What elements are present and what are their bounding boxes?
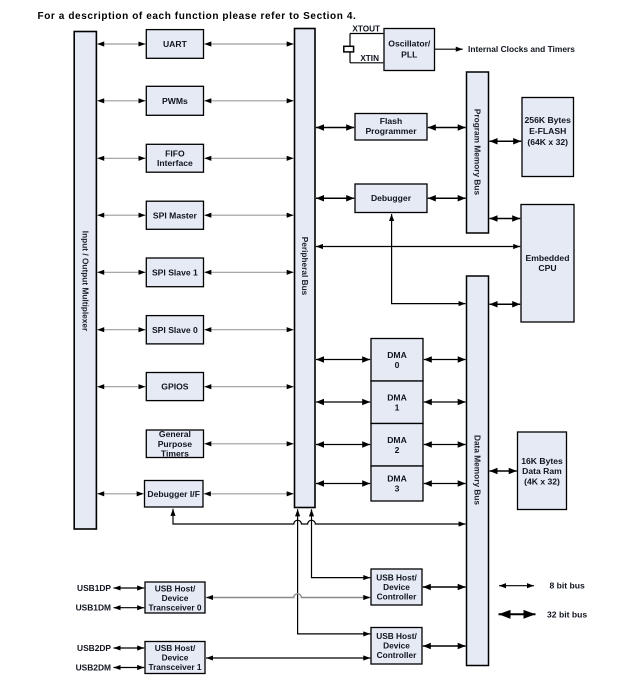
svg-text:Transceiver 1: Transceiver 1 <box>148 662 201 672</box>
svg-text:Transceiver 0: Transceiver 0 <box>148 602 201 612</box>
svg-text:Programmer: Programmer <box>365 126 417 136</box>
wire SPI Master-PeripheralBus <box>204 214 293 216</box>
wire DMA3-DataMemoryBus <box>424 483 466 485</box>
svg-text:Embedded: Embedded <box>526 253 570 263</box>
wire oscillator output <box>435 48 463 50</box>
SPI Master block <box>146 201 203 229</box>
svg-text:32 bit bus: 32 bit bus <box>547 609 587 619</box>
wire GPIOS-PeripheralBus <box>204 386 293 388</box>
wire USB1DP <box>114 587 145 589</box>
svg-text:USB1DP: USB1DP <box>77 583 111 593</box>
Input/Output Multiplexer block <box>74 32 96 530</box>
DMA 0 block <box>371 339 423 382</box>
svg-text:PLL: PLL <box>401 50 417 60</box>
wire FlashProgrammer-ProgramMemoryBus <box>428 127 466 129</box>
wire PeripheralBus-DMA0 <box>316 359 370 361</box>
svg-text:Program Memory Bus: Program Memory Bus <box>473 109 483 196</box>
svg-text:SPI Master: SPI Master <box>153 210 198 220</box>
wire USB1DM <box>114 607 145 609</box>
svg-text:1: 1 <box>395 402 400 412</box>
USB Host/Device Transceiver 1 block <box>145 642 205 674</box>
svg-text:Peripheral Bus: Peripheral Bus <box>300 237 310 296</box>
svg-text:Oscillator/: Oscillator/ <box>388 39 431 49</box>
svg-text:CPU: CPU <box>538 263 556 273</box>
wire IOMux-PWMs <box>97 100 145 102</box>
svg-text:DMA: DMA <box>387 392 407 402</box>
wire PeripheralBus-CPU <box>316 246 520 248</box>
FIFO Interface block <box>146 144 203 172</box>
UART block <box>146 30 203 59</box>
wire SPI Slave 0-PeripheralBus <box>204 329 293 331</box>
DMA 2 block <box>371 424 423 467</box>
wire XTIN <box>350 62 383 64</box>
USB Host/Device Controller 1 block <box>371 628 422 665</box>
svg-text:For a description of each func: For a description of each function pleas… <box>38 11 357 22</box>
wire UART-PeripheralBus <box>204 43 293 45</box>
svg-text:Debugger I/F: Debugger I/F <box>147 489 200 499</box>
wire XTOUT <box>350 33 383 35</box>
wire IOMux-SPI Master <box>97 214 145 216</box>
wire DMA1-DataMemoryBus <box>424 401 466 403</box>
wire PWMs-PeripheralBus <box>204 100 293 102</box>
legend 8 bit bus arrow <box>499 585 534 587</box>
svg-text:Data Memory Bus: Data Memory Bus <box>473 435 483 505</box>
Program Memory Bus block <box>467 72 489 233</box>
wire DMA0-DataMemoryBus <box>424 359 466 361</box>
USB Host/Device Controller 0 block <box>371 569 422 605</box>
svg-text:DMA: DMA <box>387 435 407 445</box>
wire PeripheralBus-Debugger <box>316 197 354 199</box>
DMA 1 block <box>371 381 423 424</box>
svg-text:Purpose: Purpose <box>158 439 193 449</box>
svg-text:Internal Clocks and Timers: Internal Clocks and Timers <box>468 44 575 54</box>
wire FIFO Interface-PeripheralBus <box>204 157 293 159</box>
USB Host/Device Transceiver 0 block <box>145 582 205 613</box>
256K Bytes E-FLASH block <box>522 98 574 177</box>
wire DebuggerIF-PeripheralBus <box>204 493 294 495</box>
SPI Slave 0 block <box>146 316 203 344</box>
DMA 3 block <box>371 466 423 501</box>
wire IOMux-SPI Slave 1 <box>97 271 145 273</box>
svg-text:Interface: Interface <box>157 158 193 168</box>
wire GeneralPurposeTimers-PeripheralBus <box>204 443 293 445</box>
svg-text:Device: Device <box>383 582 410 592</box>
wire IOMux-SPI Slave 0 <box>97 329 145 331</box>
svg-text:(64K x 32): (64K x 32) <box>527 137 568 147</box>
wire SPI Slave 1-PeripheralBus <box>204 271 293 273</box>
Flash Programmer block <box>355 114 427 141</box>
wire DMA2-DataMemoryBus <box>424 444 466 446</box>
svg-text:(4K x 32): (4K x 32) <box>524 476 560 486</box>
wire ProgramMemoryBus-EFLASH <box>490 140 522 142</box>
wire Debugger-ProgramMemoryBus <box>428 197 466 199</box>
svg-text:Timers: Timers <box>161 448 189 458</box>
svg-text:USB Host/: USB Host/ <box>376 572 417 582</box>
svg-text:PWMs: PWMs <box>162 96 188 106</box>
svg-text:DMA: DMA <box>387 350 407 360</box>
svg-text:0: 0 <box>395 360 400 370</box>
Debugger I/F block <box>145 481 204 508</box>
svg-text:2: 2 <box>395 445 400 455</box>
Debugger block <box>355 184 427 213</box>
svg-text:Data Ram: Data Ram <box>522 466 562 476</box>
wire DebuggerIF-DataMemoryBus <box>173 509 466 524</box>
legend 32 bit bus arrow <box>499 613 536 615</box>
wire PeripheralBus-DMA1 <box>316 401 370 403</box>
wire ProgramMemoryBus-CPU <box>490 218 521 220</box>
svg-text:Device: Device <box>162 593 189 603</box>
wire PeripheralBus-FlashProgrammer <box>316 127 354 129</box>
General Purpose Timers block <box>146 430 203 458</box>
wire Debugger-DataMemoryBus <box>392 214 466 304</box>
svg-text:XTIN: XTIN <box>360 54 379 63</box>
GPIOS block <box>146 373 203 401</box>
svg-text:UART: UART <box>163 39 188 49</box>
SPI Slave 1 block <box>146 258 203 287</box>
wire USB2DP <box>114 647 145 649</box>
svg-text:USB Host/: USB Host/ <box>155 583 196 593</box>
wire IOMux-UART <box>97 43 145 45</box>
wire IOMux-GPIOS <box>97 386 145 388</box>
crystal Y1 <box>344 46 354 52</box>
svg-text:XTOUT: XTOUT <box>352 25 380 34</box>
svg-text:USB2DP: USB2DP <box>77 643 111 653</box>
Oscillator/PLL block <box>384 29 435 71</box>
svg-text:Device: Device <box>162 653 189 663</box>
svg-text:E-FLASH: E-FLASH <box>529 126 566 136</box>
svg-text:16K Bytes: 16K Bytes <box>521 456 563 466</box>
wire DataMemoryBus-DataRam <box>490 470 517 472</box>
svg-text:Flash: Flash <box>380 116 402 126</box>
wire PeripheralBus-DMA3 <box>316 483 370 485</box>
svg-text:DMA: DMA <box>387 474 407 484</box>
svg-text:8 bit bus: 8 bit bus <box>550 581 586 591</box>
16K Bytes Data Ram block <box>518 432 567 510</box>
svg-text:SPI Slave 0: SPI Slave 0 <box>152 325 198 335</box>
Embedded CPU block <box>521 205 574 323</box>
svg-text:USB2DM: USB2DM <box>76 663 111 673</box>
wire PeripheralBus-USBController1 <box>298 509 371 634</box>
wire crystal vertical <box>349 34 351 63</box>
svg-text:SPI Slave 1: SPI Slave 1 <box>152 267 198 277</box>
svg-text:GPIOS: GPIOS <box>161 382 188 392</box>
wire USBController1-DataMemoryBus <box>423 645 466 647</box>
wire DataMemoryBus-CPU <box>490 303 521 305</box>
svg-text:Debugger: Debugger <box>371 193 412 203</box>
wire Transceiver1-USBController1 <box>206 657 370 659</box>
wire USB2DM <box>114 667 145 669</box>
wire IOMux-FIFO Interface <box>97 157 145 159</box>
svg-text:Controller: Controller <box>377 591 417 601</box>
PWMs block <box>146 86 203 115</box>
svg-text:General: General <box>159 429 191 439</box>
wire USBController0-DataMemoryBus <box>423 586 466 588</box>
svg-text:256K Bytes: 256K Bytes <box>525 115 572 125</box>
svg-text:USB Host/: USB Host/ <box>155 643 196 653</box>
svg-text:Input / Output Multiplexer: Input / Output Multiplexer <box>80 231 90 332</box>
wire IOMux-DebuggerIF <box>97 493 144 495</box>
wire Transceiver0-USBController0 <box>206 594 370 598</box>
svg-text:USB Host/: USB Host/ <box>376 631 417 641</box>
Data Memory Bus block <box>467 276 489 666</box>
svg-text:Controller: Controller <box>377 650 417 660</box>
svg-text:3: 3 <box>395 484 400 494</box>
svg-text:Device: Device <box>383 641 410 651</box>
Peripheral Bus block <box>295 29 316 508</box>
wire PeripheralBus-DMA2 <box>316 444 370 446</box>
svg-text:FIFO: FIFO <box>165 148 185 158</box>
wire PeripheralBus-USBController0 <box>312 509 371 577</box>
svg-text:USB1DM: USB1DM <box>76 603 111 613</box>
